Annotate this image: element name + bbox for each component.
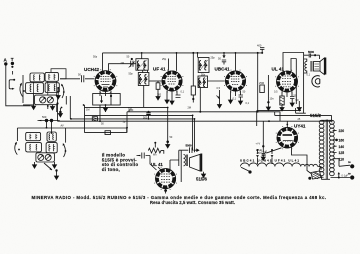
svg-text:25M: 25M xyxy=(259,81,264,85)
svg-text:2M: 2M xyxy=(188,107,191,110)
cathode parts UBC41 xyxy=(229,95,244,104)
tone capacitor xyxy=(137,153,157,171)
rail B+ left xyxy=(85,115,193,150)
tube UCH42 xyxy=(84,53,136,96)
rail AVC 1 xyxy=(85,107,170,147)
svg-text:T: T xyxy=(11,57,14,62)
cathode cap UL41 xyxy=(290,97,299,107)
magnet xyxy=(312,76,320,87)
svg-text:UBC41: UBC41 xyxy=(215,67,231,72)
ground antenna block right xyxy=(51,105,57,112)
transformer taps xyxy=(333,129,345,161)
svg-text:Resa d'uscita 2,5 watt. Consum: Resa d'uscita 2,5 watt. Consumo 35 watt. xyxy=(150,200,235,205)
ground AVC left xyxy=(58,108,62,117)
svg-text:5000: 5000 xyxy=(308,50,314,54)
svg-text:5000: 5000 xyxy=(186,143,193,147)
wire MF2 secondary to UBC41 grid xyxy=(208,80,225,82)
coupling RC to UL41 xyxy=(257,52,271,112)
tube UL41 tone xyxy=(151,160,176,194)
IF transformer MF1 xyxy=(136,53,149,108)
component value labels xyxy=(61,56,311,140)
wire antenna down xyxy=(6,66,31,106)
ground osc right xyxy=(53,162,57,168)
wire coil block to AVC xyxy=(56,87,60,99)
capacitor 5000 speaker xyxy=(304,50,320,59)
tube UF41 xyxy=(153,53,182,98)
svg-text:515/6: 515/6 xyxy=(196,177,208,182)
tube UL41 xyxy=(272,58,298,98)
svg-text:UL 41: UL 41 xyxy=(151,162,163,167)
osc switch wiper right xyxy=(63,144,67,158)
svg-text:UL 41: UL 41 xyxy=(272,67,285,72)
capacitor grid UBC41 xyxy=(218,53,226,65)
filament dropper chain xyxy=(240,159,318,174)
wave switch bottom xyxy=(44,163,59,179)
volume potentiometer xyxy=(217,90,222,108)
rail HT xyxy=(56,102,332,152)
svg-text:+/-V: +/-V xyxy=(256,143,261,146)
svg-text:UBC41 UCH42 UF41 UL41: UBC41 UCH42 UF41 UL41 xyxy=(240,159,299,163)
capacitor 400 on rail xyxy=(257,44,264,54)
UY41 to heater wire xyxy=(292,151,312,174)
svg-text:0,1: 0,1 xyxy=(307,74,311,77)
svg-text:10n: 10n xyxy=(270,98,275,101)
tuning capacitor C1 xyxy=(40,97,46,103)
svg-text:220: 220 xyxy=(339,129,345,133)
trimmer capacitor above UCH42 xyxy=(127,56,135,68)
svg-text:160: 160 xyxy=(339,139,345,143)
wire MF1 secondary to UF41 grid xyxy=(149,80,161,82)
oscillator tuning cap C4 xyxy=(45,154,51,160)
oscillator tuning cap C3 xyxy=(38,154,44,160)
svg-text:di tono,: di tono, xyxy=(102,167,120,172)
UL41 bottom frame xyxy=(257,111,301,126)
svg-text:re: re xyxy=(348,171,351,175)
power transformer T1 xyxy=(319,120,334,180)
switch S1 antenna xyxy=(9,71,15,90)
capacitor across filament xyxy=(256,149,273,164)
ballast resistor xyxy=(308,167,323,180)
band switch wiper right xyxy=(61,84,65,98)
junction dots xyxy=(46,52,289,134)
output transformer T2 xyxy=(283,53,312,74)
ground osc left xyxy=(33,162,37,168)
antenna coil block L1 xyxy=(23,72,59,105)
svg-text:125: 125 xyxy=(339,151,345,155)
tone resistor xyxy=(148,142,164,157)
svg-text:50p: 50p xyxy=(93,56,98,59)
cathode RC UF41 xyxy=(165,52,195,105)
rail AVC 3 xyxy=(66,96,194,152)
tone control note text xyxy=(102,153,139,172)
osc switch wiper left xyxy=(15,142,20,155)
svg-text:500: 500 xyxy=(42,115,47,119)
svg-text:25p: 25p xyxy=(162,58,167,61)
tube UBC41 xyxy=(215,53,246,97)
UY41 cathode cap xyxy=(256,143,282,161)
svg-text:1M: 1M xyxy=(86,109,89,112)
ground antenna block mid xyxy=(47,105,49,109)
svg-text:25p: 25p xyxy=(211,57,216,60)
svg-text:1M: 1M xyxy=(128,107,132,111)
rail B+ right xyxy=(275,112,332,120)
svg-text:0,1: 0,1 xyxy=(246,102,250,105)
svg-text:0,5: 0,5 xyxy=(274,91,278,94)
rail AVC 2 xyxy=(127,107,287,133)
terminal A xyxy=(4,57,8,65)
svg-text:UY41: UY41 xyxy=(294,123,306,128)
speaker 515/6 xyxy=(184,154,206,178)
tuning capacitor C2 xyxy=(47,97,53,103)
svg-text:re: re xyxy=(348,160,351,164)
capacitor grid coupling xyxy=(60,73,95,83)
pin number specks xyxy=(94,69,299,190)
wires to speaker 2 xyxy=(170,150,181,182)
band switch wiper left xyxy=(20,83,25,97)
oscillator coil block L2 xyxy=(17,128,127,162)
svg-text:0,1: 0,1 xyxy=(233,98,237,101)
svg-text:0,5: 0,5 xyxy=(217,87,221,90)
svg-text:0,1: 0,1 xyxy=(181,91,185,94)
IF transformer MF2 xyxy=(198,53,210,113)
tube UY41 xyxy=(277,123,306,151)
cathode wire UCH42 xyxy=(104,105,108,112)
series resistor on AVC rail xyxy=(92,117,97,121)
svg-text:140: 140 xyxy=(339,145,345,149)
terminal T xyxy=(11,57,14,68)
svg-text:50p: 50p xyxy=(129,73,134,76)
capacitor 5000 speaker2 xyxy=(181,143,200,153)
cathode resistor UL41 xyxy=(280,96,284,111)
padder capacitor xyxy=(38,115,60,133)
capacitor 500 on rail xyxy=(143,111,151,120)
speaker 515/2 xyxy=(314,58,326,75)
grid leak box below UCH42 xyxy=(93,94,121,106)
svg-text:250: 250 xyxy=(257,152,262,155)
mains switch xyxy=(337,159,355,169)
svg-text:300: 300 xyxy=(157,94,162,97)
ground antenna block left xyxy=(32,93,36,109)
svg-text:400: 400 xyxy=(257,44,262,48)
grid resistor UF41 xyxy=(156,81,160,100)
svg-text:50p: 50p xyxy=(201,74,206,77)
rail feedback xyxy=(85,105,127,135)
top rail left xyxy=(103,52,263,54)
mains line xyxy=(331,171,355,179)
speaker frame wires xyxy=(296,55,306,113)
svg-text:2M: 2M xyxy=(121,62,124,65)
svg-text:UF 41: UF 41 xyxy=(153,67,166,72)
svg-text:UCH42: UCH42 xyxy=(84,67,100,72)
svg-text:AV: AV xyxy=(61,125,64,128)
svg-text:Mn: Mn xyxy=(153,154,157,157)
wire coil block top to grid xyxy=(51,69,66,79)
